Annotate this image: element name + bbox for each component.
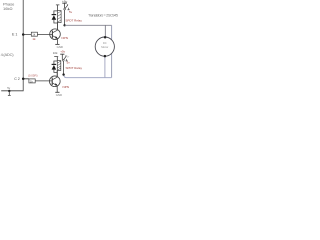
- svg-text:10k: 10k: [53, 51, 58, 55]
- svg-text:(0.05R): (0.05R): [28, 73, 38, 77]
- svg-text:16kΩ: 16kΩ: [3, 6, 12, 11]
- svg-text:C 2: C 2: [14, 77, 20, 81]
- svg-text:4 (ADC): 4 (ADC): [1, 52, 15, 57]
- svg-text:NPN: NPN: [63, 85, 70, 89]
- svg-text:GND: GND: [56, 93, 62, 97]
- svg-text:SPDT Relay: SPDT Relay: [65, 18, 82, 22]
- svg-text:1k: 1k: [32, 37, 36, 41]
- svg-text:Motor: Motor: [101, 45, 108, 49]
- svg-text:+5v: +5v: [60, 49, 65, 53]
- svg-text:SPDT Relay: SPDT Relay: [66, 66, 83, 70]
- svg-text:Transistors = 2SC945: Transistors = 2SC945: [88, 13, 118, 17]
- svg-text:E 1: E 1: [12, 33, 17, 37]
- svg-text:NPN: NPN: [61, 36, 68, 40]
- svg-text:5v: 5v: [67, 61, 71, 65]
